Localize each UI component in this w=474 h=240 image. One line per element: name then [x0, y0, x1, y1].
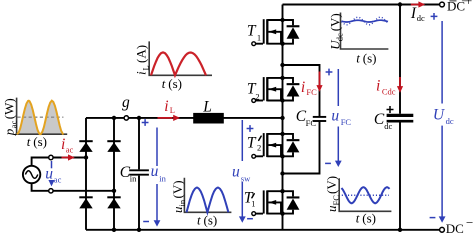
AC source G1: [23, 166, 40, 183]
diode D4 bridge bottom-right: [107, 196, 120, 208]
svg-text:t: t: [356, 51, 360, 66]
svg-text:L: L: [140, 65, 150, 70]
wire bridge right leg: [113, 118, 115, 230]
transistor T2p: [252, 132, 300, 159]
node Cin top: [137, 116, 141, 120]
wire ac bottom lead: [32, 183, 114, 191]
transistor T1p: [252, 189, 300, 216]
wire ac top lead: [32, 158, 86, 166]
svg-text:sw: sw: [241, 173, 251, 183]
svg-text:i: i: [164, 98, 168, 115]
plot u_FC dotted mean: [342, 194, 389, 196]
svg-text:(A): (A): [133, 45, 148, 63]
wire top rail DC+: [283, 4, 440, 6]
wire Cdc branch: [399, 5, 401, 230]
plot u_FC ylabel: [324, 176, 341, 212]
svg-text:i: i: [61, 136, 65, 153]
svg-text:L: L: [170, 105, 175, 115]
svg-text:in: in: [177, 199, 187, 206]
plot i_L curve: [151, 53, 206, 76]
plot p_ac fill: [17, 101, 64, 135]
svg-text:(V): (V): [327, 13, 342, 31]
svg-text:FC: FC: [306, 118, 317, 128]
wire Cin branch: [138, 118, 140, 230]
wire transistor column: [282, 5, 284, 230]
svg-text:u: u: [151, 163, 159, 180]
svg-text:(s): (s): [33, 134, 47, 149]
wire bridge left leg: [85, 118, 87, 230]
plot u_in axes: [184, 178, 231, 213]
plot p_ac ylabel: [1, 98, 18, 136]
current arrow I_dc: [411, 1, 425, 7]
label Cdc plus: [387, 106, 394, 113]
plot i_L axes: [149, 41, 212, 75]
svg-text:ac: ac: [54, 175, 62, 185]
label u_FC plus: [326, 69, 333, 76]
plot U_dc curve: [342, 20, 389, 22]
plot U_dc ylabel: [327, 13, 344, 50]
svg-text:t: t: [162, 76, 166, 91]
svg-text:p: p: [1, 128, 16, 136]
inductor L: [193, 113, 224, 124]
svg-text:i: i: [376, 77, 380, 94]
voltage arrow U_dc: [439, 21, 446, 223]
voltage arrow u_sw: [239, 120, 246, 223]
svg-text:dc: dc: [384, 121, 392, 131]
plot U_dc axes: [341, 13, 389, 50]
plot u_FC axes: [339, 178, 391, 211]
svg-text:i: i: [301, 79, 305, 96]
svg-text:−: −: [466, 215, 473, 230]
node bridge right top: [112, 116, 116, 120]
svg-text:(s): (s): [168, 76, 182, 91]
plot U_dc dotted ripple: [342, 17, 389, 25]
svg-text:1: 1: [251, 199, 255, 209]
label u_in plus: [142, 119, 149, 126]
plot u_FC curve: [342, 187, 390, 203]
label U_dc minus: [430, 217, 436, 219]
svg-text:i: i: [133, 71, 148, 75]
transistor T1: [252, 18, 300, 46]
diode D3 bridge bottom-left: [79, 196, 92, 208]
svg-text:FC: FC: [341, 117, 352, 127]
plot u_in ylabel: [170, 180, 187, 213]
svg-text:dc: dc: [417, 13, 425, 23]
wire CFC branch bottom: [283, 121, 320, 173]
svg-text:FC: FC: [306, 87, 317, 97]
node switch: [280, 116, 284, 120]
svg-text:t: t: [197, 212, 201, 227]
edge artifact marks: [449, 0, 456, 2]
svg-text:U: U: [433, 107, 446, 124]
node Cdc top: [398, 2, 402, 6]
label u_sw plus: [247, 125, 254, 132]
wire CFC branch top: [283, 65, 320, 117]
svg-text:T: T: [247, 22, 257, 39]
svg-text:DC: DC: [446, 221, 464, 234]
wire main mid rail g to switch node: [86, 117, 283, 119]
plot i_L ylabel: [133, 45, 150, 75]
node bridge right bottom: [112, 228, 116, 232]
svg-text:dc: dc: [446, 116, 454, 126]
svg-text:u: u: [331, 107, 339, 124]
current arrow i_L: [158, 115, 181, 121]
plot p_ac mean dashed line: [17, 116, 63, 118]
terminal DC-: [440, 227, 445, 232]
label u_in minus: [143, 221, 149, 223]
voltage arrow u_in: [154, 128, 161, 227]
svg-text:(s): (s): [204, 212, 218, 227]
svg-text:t: t: [27, 134, 31, 149]
svg-text:in: in: [130, 174, 137, 184]
node Cin bottom: [137, 228, 141, 232]
label U_dc plus: [431, 13, 438, 20]
node bridge left mid: [84, 155, 88, 159]
voltage arrow u_ac: [48, 161, 54, 186]
svg-text:in: in: [159, 173, 166, 183]
svg-text:ac: ac: [66, 145, 74, 155]
svg-text:(V): (V): [170, 180, 185, 198]
svg-text:g: g: [122, 94, 130, 111]
terminal ac bottom: [49, 189, 53, 193]
node CFC top: [280, 63, 284, 67]
plot p_ac curve: [17, 101, 64, 135]
svg-text:(W): (W): [1, 98, 16, 119]
svg-text:t: t: [356, 210, 360, 225]
svg-text:Cdc: Cdc: [382, 87, 396, 97]
capacitor Cdc: [387, 115, 414, 121]
svg-text:(s): (s): [363, 51, 377, 66]
voltage arrow u_FC: [335, 69, 342, 167]
terminal DC+: [440, 2, 445, 7]
wire bottom rail DC-: [86, 229, 440, 231]
svg-text:DC: DC: [447, 0, 465, 14]
svg-text:(s): (s): [362, 210, 376, 225]
current arrow i_ac: [62, 154, 75, 160]
node CFC bottom: [280, 171, 284, 175]
capacitor CFC: [313, 117, 326, 121]
label u_FC minus: [325, 162, 331, 164]
current arrow i_FC: [316, 72, 322, 92]
diode D1 bridge top-left: [79, 140, 92, 152]
terminal ac top: [49, 155, 53, 159]
svg-text:T: T: [247, 135, 257, 152]
plot p_ac axes: [17, 98, 68, 135]
plot u_in curve: [187, 188, 229, 213]
svg-text:2: 2: [255, 92, 259, 102]
svg-text:dc: dc: [334, 33, 344, 41]
label u_sw minus: [247, 218, 253, 220]
node Cdc bottom: [398, 228, 402, 232]
svg-text:(V): (V): [324, 176, 339, 194]
svg-text:FC: FC: [331, 195, 341, 206]
current arrow i_Cdc: [397, 77, 403, 93]
capacitor Cin: [129, 170, 149, 174]
svg-text:2: 2: [257, 142, 261, 152]
svg-text:u: u: [45, 166, 53, 183]
node bridge right mid: [112, 189, 116, 193]
svg-text:u: u: [232, 164, 240, 181]
node g: [124, 116, 128, 120]
svg-text:L: L: [202, 99, 212, 116]
svg-text:ac: ac: [8, 120, 18, 128]
svg-text:1: 1: [257, 32, 261, 42]
transistor T2: [252, 76, 300, 103]
diode D2 bridge top-right: [107, 140, 120, 152]
